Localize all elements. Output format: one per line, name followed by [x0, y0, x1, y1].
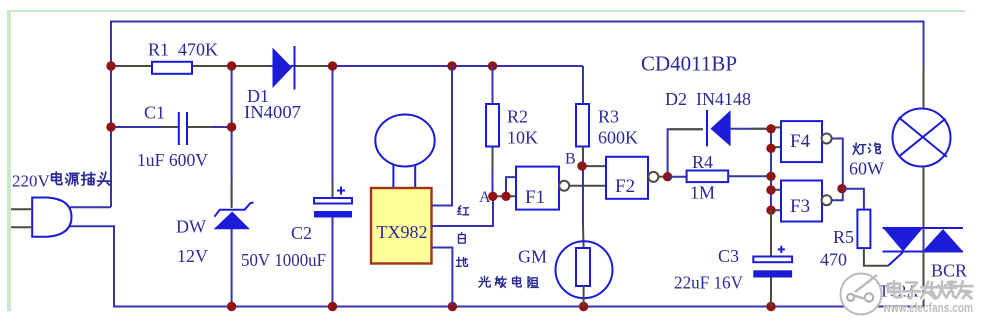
wire: white pin to node A [432, 196, 494, 226]
wire: F3 output up [832, 189, 843, 201]
wire: C1 row left dark part [162, 126, 178, 128]
svg-text:R4: R4 [692, 152, 713, 172]
node F2 output [663, 172, 672, 181]
svg-text:CD4011BP: CD4011BP [641, 52, 737, 76]
node: junction GM bottom rail [579, 302, 588, 311]
svg-text:1M: 1M [690, 183, 715, 203]
svg-text:C3: C3 [718, 246, 739, 266]
svg-text:C1: C1 [144, 103, 165, 123]
node rail F3 in1 [766, 185, 775, 194]
svg-text:B: B [565, 151, 576, 168]
label 地 [456, 257, 467, 266]
wire: F4 input stubs [771, 127, 781, 147]
resistor R1 [152, 62, 192, 74]
svg-text:220V: 220V [12, 172, 51, 191]
gate F3 [781, 181, 832, 222]
svg-text:DW: DW [176, 217, 206, 237]
resistor R4 [668, 171, 771, 183]
wire: DW branch vertical [231, 66, 233, 205]
node: junction ground pin rail [448, 302, 457, 311]
wire: gate input rail dark segment [770, 213, 772, 256]
sensor bulb [375, 115, 434, 189]
wire: second rail R1/D1 row [111, 65, 583, 67]
wire: B vertical to GM [582, 166, 584, 225]
lamp [893, 109, 951, 229]
node A wires [493, 177, 516, 196]
triac BCR [883, 228, 964, 307]
gate F4 [781, 121, 832, 162]
svg-text:F4: F4 [790, 131, 811, 152]
wire: F1 output to F2 [569, 185, 606, 187]
node: junction C3 bottom rail [766, 302, 775, 311]
svg-text:600K: 600K [598, 128, 638, 148]
wire: dark segments on second rail [117, 65, 326, 67]
svg-text:R3: R3 [598, 107, 619, 127]
svg-text:1uF 600V: 1uF 600V [137, 150, 208, 170]
IC TX982 [371, 188, 432, 264]
wire: gate input rail [770, 129, 772, 256]
capacitor C3 [753, 210, 792, 307]
svg-text:IN4007: IN4007 [244, 102, 301, 122]
resistor R5 [857, 210, 903, 266]
svg-text:D2 IN4148: D2 IN4148 [665, 89, 751, 109]
node A dot 2 [501, 192, 510, 201]
svg-text:F1: F1 [525, 187, 545, 208]
svg-text:50V 1000uF: 50V 1000uF [241, 250, 326, 270]
wire: C1 row right [188, 126, 232, 128]
zener diode DW [214, 203, 254, 230]
svg-text:R5: R5 [833, 227, 854, 247]
gate F2 [606, 157, 658, 199]
node rail D2/F4 [766, 124, 775, 133]
svg-text:R1 470K: R1 470K [148, 40, 218, 60]
resistor R3 [576, 104, 589, 166]
node rail F3 in2 [766, 206, 775, 215]
wire: DW branch dark segment [231, 178, 233, 208]
node A dot 1 [488, 192, 497, 201]
wire: top-right drop to lamp (dark) [923, 66, 925, 109]
resistor R2 [486, 66, 499, 196]
node rail F4 in2 [766, 144, 775, 153]
capacitor C2 [314, 187, 352, 218]
node: junction R2 top [488, 61, 497, 70]
wire: D2 anode dark segment [670, 128, 703, 130]
node F3/F4 output [837, 184, 846, 193]
label 白 [459, 233, 466, 243]
wire: F2 out up to D2 [668, 129, 703, 176]
diode D2 [707, 110, 771, 146]
diode D1 [273, 46, 295, 90]
gate F1 [516, 167, 569, 210]
wire: C2 bottom to rail [332, 218, 334, 307]
node: junction red-pin rail [447, 61, 456, 70]
svg-text:GM: GM [518, 247, 547, 267]
svg-text:C2: C2 [291, 223, 312, 243]
plug 220V [11, 198, 72, 237]
photoresistor GM [556, 241, 613, 306]
capacitor C1 [179, 112, 187, 145]
wire: bottom rail [70, 226, 924, 306]
node: junction R1 right [227, 61, 236, 70]
svg-text:12V: 12V [177, 246, 208, 266]
wire: plug top wire [70, 206, 111, 208]
watermark logo [841, 274, 882, 315]
label 220V电源插头 [12, 172, 111, 191]
wire: second rail corner down to R3 [582, 66, 584, 104]
node: junction C2 bottom rail [328, 302, 337, 311]
label 光敏电阻 [479, 276, 538, 287]
wire: to R5 [843, 189, 864, 210]
label 灯泡 [853, 143, 880, 154]
wire: F3 input stubs [771, 190, 781, 210]
wire: C1 row right dark part [188, 126, 212, 128]
label 红 [458, 206, 469, 215]
node B [577, 161, 586, 170]
svg-text:TX982: TX982 [377, 222, 428, 242]
wire: C2 branch dark segment [332, 184, 334, 198]
node rail R4 [766, 172, 775, 181]
node: junction DW bottom rail [227, 302, 236, 311]
wire: F4 output down [832, 139, 843, 189]
svg-text:60W: 60W [849, 159, 884, 179]
wire: F2 output [658, 176, 667, 178]
svg-text:22uF 16V: 22uF 16V [674, 273, 743, 293]
wire: B vertical dark to GM [582, 225, 585, 248]
node: junction C1 right [227, 122, 236, 131]
wire: ground pin [432, 248, 453, 307]
svg-text:A: A [479, 189, 491, 206]
watermark 电子发烧友 [889, 282, 973, 299]
node: junction R1 left [106, 61, 115, 70]
svg-text:BCR: BCR [931, 261, 967, 281]
svg-text:www.elecfans.com: www.elecfans.com [882, 300, 973, 315]
wire: C1 row left [111, 126, 178, 128]
wire: DW bottom to rail [231, 229, 233, 307]
svg-text:F2: F2 [615, 176, 635, 197]
node: junction D1 cathode [328, 61, 337, 70]
wire: C2 branch vertical [332, 66, 334, 198]
svg-text:470: 470 [820, 250, 847, 270]
svg-text:R2: R2 [507, 107, 528, 127]
svg-text:F3: F3 [790, 196, 810, 217]
wire: top rail [111, 22, 924, 208]
wire: B row to F2 input [583, 165, 606, 167]
svg-text:10K: 10K [507, 128, 538, 148]
node: junction C1 left [106, 122, 115, 131]
wire: red pin [432, 66, 453, 206]
